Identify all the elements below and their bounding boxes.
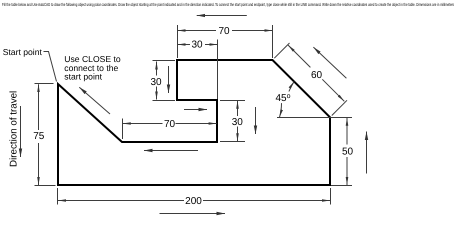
svg-text:75: 75 <box>33 131 45 142</box>
svg-text:45o: 45o <box>275 93 290 104</box>
svg-text:Fill the table below and Use A: Fill the table below and Use AutoCAD to … <box>2 2 455 7</box>
svg-text:start point: start point <box>64 72 102 82</box>
svg-text:Start point: Start point <box>3 47 43 57</box>
svg-text:60: 60 <box>311 70 323 81</box>
svg-text:70: 70 <box>218 26 230 37</box>
svg-text:70: 70 <box>164 119 176 130</box>
svg-text:30: 30 <box>191 40 203 51</box>
svg-text:30: 30 <box>150 77 162 88</box>
svg-text:30: 30 <box>232 117 244 128</box>
svg-text:Direction of travel: Direction of travel <box>9 91 20 167</box>
svg-text:200: 200 <box>185 196 202 207</box>
svg-text:50: 50 <box>342 146 354 157</box>
